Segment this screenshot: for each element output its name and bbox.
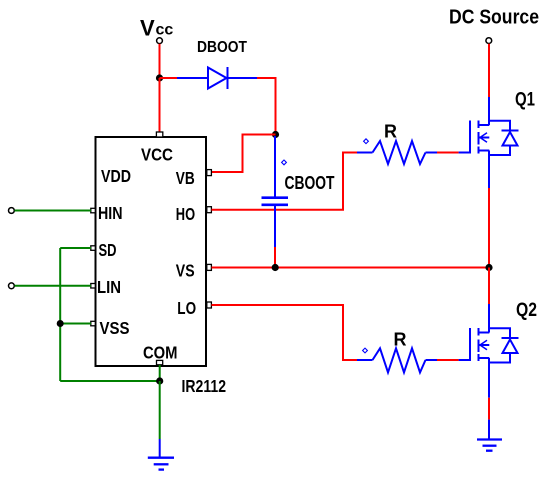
wire VB pin to node B path done above; wire HO to R1 (212, 153, 358, 210)
svg-text:LO: LO (177, 298, 196, 318)
wire CBOOT to node VS (274, 247, 276, 268)
wire node B to VB pin (212, 135, 276, 173)
terminal Vcc (157, 38, 163, 44)
pin HO nub (207, 207, 212, 213)
terminal HIN input (9, 208, 15, 214)
capacitor CBOOT lead bottom (274, 206, 276, 247)
wire R1 to Q1 gate (437, 152, 459, 154)
svg-text:R: R (384, 122, 397, 142)
wire Q1 source to node VS (488, 188, 490, 268)
svg-text:IR2112: IR2112 (182, 376, 227, 396)
node VS-Q1Q2 junction (485, 264, 492, 271)
node B junction (272, 131, 279, 138)
pin VCC nub (156, 132, 162, 137)
svg-text:VSS: VSS (100, 318, 130, 338)
wire COM node to ground (159, 381, 161, 439)
wire LIN input (15, 285, 92, 287)
lead ground left (159, 439, 161, 457)
svg-text:R: R (394, 330, 407, 350)
terminal LIN input (9, 283, 15, 289)
svg-text:VS: VS (176, 261, 195, 281)
lead Q2 drain (488, 304, 490, 333)
pin COM nub (157, 360, 163, 364)
lead Q1 gate (459, 152, 469, 154)
node marker CBOOT diamond (282, 160, 287, 165)
svg-text:COM: COM (143, 343, 178, 363)
node A junction (156, 74, 163, 81)
svg-text:VB: VB (176, 168, 195, 188)
wire HIN input (15, 210, 92, 212)
wire node VS to Q2 drain (488, 268, 490, 305)
svg-text:Q2: Q2 (516, 300, 537, 321)
svg-text:HIN: HIN (98, 203, 123, 223)
wire Vcc to node A (159, 44, 161, 78)
ground right (477, 440, 502, 451)
wire SD-VSS-COM bus vertical (59, 248, 61, 381)
pin LIN nub (91, 284, 96, 289)
svg-text:SD: SD (99, 240, 117, 260)
svg-text:DC Source: DC Source (449, 7, 539, 29)
transistor Q1 (470, 121, 519, 189)
wire SD (60, 247, 91, 249)
pin VB nub (207, 170, 212, 176)
wire COM pin down (159, 365, 161, 381)
pin SD nub (91, 246, 96, 251)
terminal DC Source (486, 38, 492, 44)
diode DBOOT (177, 67, 257, 89)
svg-text:CBOOT: CBOOT (285, 173, 335, 193)
wire R2 to Q2 gate (437, 359, 459, 361)
ground left (148, 458, 174, 470)
pin VS nub (207, 264, 212, 270)
svg-text:Q1: Q1 (515, 90, 535, 111)
wire bus to COM node (60, 380, 160, 382)
lead Q1 drain (488, 97, 490, 125)
capacitor CBOOT lead top (274, 136, 276, 197)
svg-text:DBOOT: DBOOT (197, 39, 247, 56)
svg-text:HO: HO (176, 204, 195, 224)
wire diode to node B (257, 78, 276, 135)
node COM junction (156, 377, 163, 384)
svg-text:LIN: LIN (97, 277, 121, 297)
pin HIN nub (91, 208, 96, 213)
wire DC source to Q1 drain (488, 44, 490, 97)
wire Q2 source (488, 398, 490, 420)
label Vcc (140, 16, 173, 41)
capacitor CBOOT (262, 198, 289, 205)
svg-text:VCC: VCC (141, 145, 173, 165)
resistor R1 (357, 141, 437, 164)
wire VS rail (212, 267, 490, 269)
node VSS junction (57, 320, 64, 327)
svg-text:V: V (140, 16, 155, 41)
node marker R2 diamond (363, 348, 368, 353)
node marker R1 diamond (364, 139, 369, 144)
pin LO nub (207, 302, 212, 308)
wire LO to R2 (212, 305, 358, 360)
svg-text:cc: cc (156, 22, 174, 39)
resistor R2 (357, 348, 437, 372)
wire VSS (60, 323, 91, 325)
pin VSS nub (91, 321, 96, 326)
wire node A to diode anode (160, 77, 178, 79)
node VS-CBOOT junction (272, 264, 279, 271)
wire node A to VCC pin (159, 78, 161, 133)
svg-text:VDD: VDD (101, 166, 131, 186)
IC U1 body (96, 137, 207, 366)
transistor Q2 (470, 328, 519, 398)
lead Q2 gate (459, 359, 469, 361)
lead ground right (488, 420, 490, 439)
